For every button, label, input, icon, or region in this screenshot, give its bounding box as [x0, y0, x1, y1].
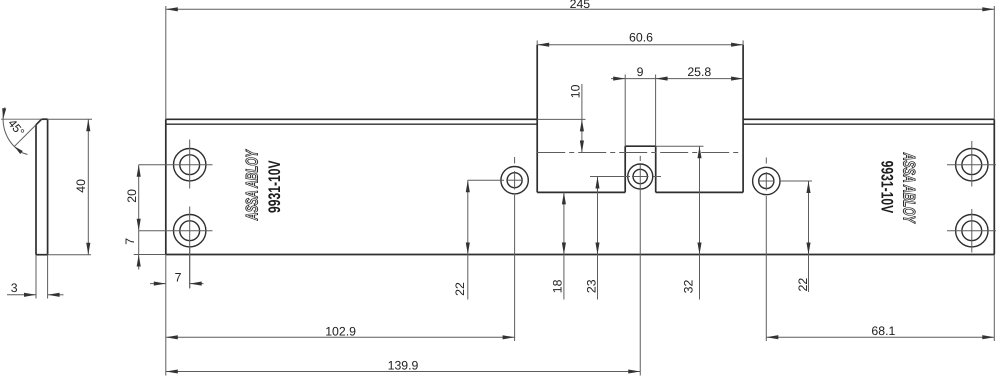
dim 7h arrow right — [190, 282, 202, 286]
notch top edge — [625, 145, 656, 147]
dim 22L line — [467, 180, 469, 299]
left face extension below — [35, 255, 37, 299]
dim 139.9 arrow left — [166, 369, 178, 373]
svg-text:ASSA ABLOY: ASSA ABLOY — [242, 149, 261, 221]
dim 25.8 arrow right — [731, 77, 743, 81]
dim 10 arrow top — [580, 119, 584, 131]
plate left edge — [165, 119, 167, 254]
hole bottom-left center lines — [189, 207, 191, 289]
dim 22R arrow top — [806, 181, 810, 193]
svg-text:7: 7 — [123, 238, 137, 245]
svg-text:68.1: 68.1 — [871, 324, 895, 338]
dim 60.6 ext right — [742, 40, 744, 44]
ext center hole below — [639, 190, 641, 376]
side view bottom edge — [36, 254, 48, 256]
dim 20 arrow bottom — [137, 219, 141, 231]
dim 60.6 line — [537, 44, 743, 46]
dim 23 leader — [590, 176, 630, 178]
svg-text:10: 10 — [569, 84, 583, 98]
dim 68.1 arrow right — [982, 335, 994, 339]
dim 23 arrow bottom — [595, 243, 599, 255]
hole bottom-right — [956, 215, 988, 247]
svg-text:ASSA ABLOY: ASSA ABLOY — [900, 152, 919, 224]
dim 18 arrow top — [562, 192, 566, 204]
hole middle-left — [501, 167, 528, 194]
dim 20 arrow top — [137, 165, 141, 177]
dim 32 line — [699, 146, 701, 299]
dim 102.9 line — [166, 336, 515, 338]
svg-text:22: 22 — [453, 282, 467, 296]
dim 10 line — [581, 84, 583, 153]
dim 60.6 arrow right — [731, 43, 743, 47]
lip left edge — [536, 45, 538, 193]
dim 7h arrow left — [154, 282, 166, 286]
dim 9 ext left — [624, 75, 626, 147]
notch left edge — [624, 146, 626, 192]
dim 102.9 arrow left — [166, 335, 178, 339]
svg-text:102.9: 102.9 — [325, 324, 356, 338]
hole middle-left center lines — [514, 157, 516, 164]
hole bottom-right center lines — [971, 209, 973, 253]
dim 45deg leader tail — [22, 153, 28, 155]
ext plate right edge below — [993, 255, 995, 342]
dim 245 ext right — [993, 6, 995, 119]
dim 7v line — [138, 231, 140, 270]
side view plate top face — [42, 118, 48, 120]
ext plate left edge below — [165, 255, 167, 376]
dim 9 arrow right — [656, 77, 668, 81]
dim 3 arrow left — [24, 293, 36, 297]
top face extension line left — [1, 118, 42, 120]
dim 23 arrow top — [595, 177, 599, 189]
chamfer extension line — [15, 125, 37, 147]
dim 45deg arc — [3, 107, 18, 150]
svg-text:7: 7 — [175, 270, 182, 284]
dim 32 arrow bottom — [697, 243, 701, 255]
svg-text:25.8: 25.8 — [687, 65, 711, 79]
svg-text:139.9: 139.9 — [388, 359, 419, 373]
plate bottom extension left — [134, 254, 166, 256]
hole middle-right center lines — [765, 158, 767, 164]
dim 40 arrow bottom — [86, 243, 90, 255]
dim 7h line left — [150, 283, 166, 285]
plate bend line right segment — [743, 123, 994, 125]
dim 68.1 arrow left — [766, 335, 778, 339]
svg-text:245: 245 — [570, 0, 591, 11]
side view right face — [47, 119, 49, 255]
ext middle-right hole below — [765, 196, 767, 341]
dim 7v arrow bottom — [137, 255, 141, 267]
dim 45deg arrow bottom — [14, 146, 22, 154]
notch right edge — [655, 146, 657, 192]
svg-text:9931-10V: 9931-10V — [265, 160, 284, 213]
dim 22L leader — [468, 179, 504, 181]
dim 40 arrow top — [86, 119, 90, 131]
dim 9 arrow left — [613, 77, 625, 81]
svg-text:22: 22 — [796, 278, 810, 292]
dim 45deg arrow top — [2, 108, 6, 119]
svg-text:18: 18 — [551, 279, 565, 293]
dim 18 line — [563, 192, 565, 299]
dim 245 arrow right — [982, 7, 994, 11]
svg-text:9931-10V: 9931-10V — [878, 161, 897, 214]
dim 245 arrow left — [166, 7, 178, 11]
svg-text:3: 3 — [11, 281, 18, 295]
dim 102.9 arrow right — [503, 335, 515, 339]
dim 245 line — [166, 8, 995, 10]
lip bottom edge right — [656, 191, 743, 193]
hole center keeper — [628, 164, 653, 189]
side view chamfer edge — [36, 119, 42, 125]
dim 22L arrow top — [466, 180, 470, 192]
dim 68.1 line — [766, 336, 994, 338]
side view left face — [35, 125, 37, 255]
hole top-right center lines — [971, 141, 973, 187]
dim 7h ext hole — [189, 247, 191, 288]
plate right edge — [993, 119, 995, 254]
dim 20 line — [138, 165, 140, 231]
dim 3 line left — [7, 294, 36, 296]
dim 9-25.8 line — [611, 78, 743, 80]
hole top-left center lines — [189, 140, 191, 189]
dim 22L arrow bottom — [466, 243, 470, 255]
center line of lip — [537, 152, 743, 154]
dim 32 arrow top — [697, 146, 701, 158]
dim 60.6 ext left — [536, 40, 538, 44]
dim 7h line right — [190, 283, 204, 285]
hole top-left — [174, 149, 206, 181]
dim 139.9 arrow right — [628, 369, 640, 373]
lip bottom edge left — [537, 191, 625, 193]
svg-text:23: 23 — [584, 279, 598, 293]
ext middle-left hole below — [514, 195, 516, 341]
dim 245 ext left — [165, 6, 167, 119]
dim 18 arrow bottom — [562, 243, 566, 255]
dim 10 ext line — [537, 118, 585, 120]
right face extension below — [47, 255, 49, 299]
plate bend line left segment — [166, 123, 537, 125]
svg-text:9: 9 — [637, 65, 644, 79]
hole top-right — [956, 149, 988, 181]
plate top edge right segment — [743, 118, 994, 120]
dim 10 arrow bottom — [580, 141, 584, 153]
lip right edge — [742, 45, 744, 193]
plate top edge left segment — [166, 118, 537, 120]
hole bottom-left — [174, 215, 206, 247]
dim 40 line — [87, 119, 89, 255]
bottom edge extension right — [48, 254, 91, 256]
dim 22R line — [808, 181, 810, 292]
dim 22R arrow bottom — [806, 243, 810, 255]
svg-text:40: 40 — [74, 179, 88, 193]
dim 9 ext right — [655, 75, 657, 147]
svg-text:32: 32 — [682, 280, 696, 294]
dim 3 arrow right — [48, 293, 60, 297]
top face extension line right — [48, 118, 92, 120]
dim 3 line right — [48, 294, 64, 296]
hole middle-right — [753, 167, 780, 194]
dim 22R leader — [780, 180, 812, 182]
svg-text:60.6: 60.6 — [629, 30, 653, 44]
dim 139.9 line — [166, 371, 640, 373]
dim 32 leader — [656, 145, 704, 147]
dim 23 line — [597, 177, 599, 300]
dim 60.6 arrow left — [537, 43, 549, 47]
plate bottom edge — [166, 254, 995, 256]
svg-text:20: 20 — [125, 189, 139, 203]
hole center center lines — [639, 156, 641, 161]
